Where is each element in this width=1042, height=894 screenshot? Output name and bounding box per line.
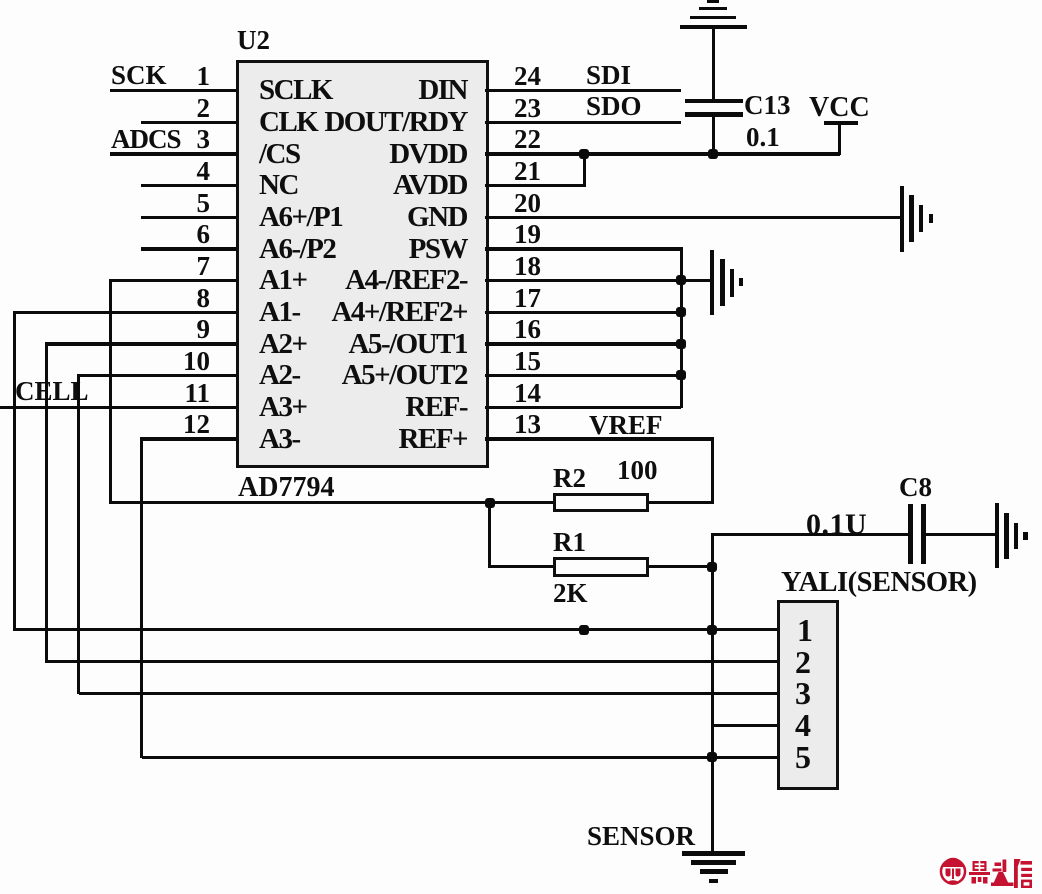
ground A dot <box>929 214 934 224</box>
wire pin18 <box>485 279 681 282</box>
wire pin5 <box>141 216 236 219</box>
pin label A5-/OUT1 pin 16 <box>349 328 468 361</box>
pin label A4-/REF2- pin 18 <box>345 264 467 297</box>
pin label CLK pin 2 <box>259 106 317 139</box>
capacitor C8 left plate <box>908 504 913 564</box>
wire pin21 vertical <box>583 152 586 187</box>
wire sensor pin5 long horizontal <box>142 756 779 759</box>
pin label A6+/P1 pin 5 <box>259 201 342 234</box>
node junction R1 right <box>707 562 717 572</box>
wire C13 bottom to pin22 net <box>712 116 716 154</box>
wire sensor pin1 long horizontal <box>15 628 779 631</box>
wire R1 left horizontal <box>488 565 553 568</box>
pin number 13 <box>514 409 541 440</box>
wire sensor pin3 long horizontal <box>79 692 779 695</box>
connector pin number 5 <box>795 739 811 776</box>
connector pin number 3 <box>795 675 811 712</box>
ground bottom earth bar3 <box>700 869 728 874</box>
pin label PSW pin 19 <box>409 233 467 266</box>
wire pin18 bus to ground B <box>681 279 710 282</box>
wire pin4 <box>141 184 236 187</box>
pin number 14 <box>514 378 541 409</box>
value label C13 <box>744 90 791 121</box>
label C8 <box>899 472 932 503</box>
pin number 17 <box>514 283 541 314</box>
wire pin11 CELL horizontal <box>0 406 236 409</box>
wire ground to C13 top <box>712 27 716 99</box>
pin number 1 <box>197 61 211 92</box>
label U2 <box>237 25 270 56</box>
ground C dot <box>1023 532 1028 541</box>
wire pin22 DVDD <box>485 152 840 155</box>
ground C bar3 <box>1014 523 1018 550</box>
pin number 6 <box>197 219 211 250</box>
wire pin12 vertical <box>140 437 143 758</box>
pin number 8 <box>197 283 211 314</box>
capacitor C8 right plate <box>921 504 926 564</box>
pin number 19 <box>514 219 541 250</box>
pin number 24 <box>514 61 541 92</box>
wire C8 to ground C <box>925 533 995 536</box>
pin number 23 <box>514 93 541 124</box>
power VCC bar <box>824 121 858 125</box>
wire pin13 VREF horizontal <box>485 437 712 440</box>
pin number 3 <box>197 124 211 155</box>
ground A pin20 bar1 tall <box>900 186 904 252</box>
node junction pin17 bus <box>676 307 686 317</box>
pin label A1- pin 8 <box>259 296 300 329</box>
ground bottom earth bar2 <box>691 860 736 865</box>
value label 2K <box>553 578 588 609</box>
connector pin number 2 <box>795 644 811 681</box>
net label SDI <box>586 60 631 91</box>
wire main vertical sensor bus <box>711 533 715 853</box>
pin label DOUT/RDY pin 23 <box>324 106 467 139</box>
capacitor C13 bottom plate <box>685 112 743 117</box>
wire R network left horizontal from pin7 <box>110 501 553 504</box>
node junction pin16 bus <box>676 339 686 349</box>
value label 0.1 <box>746 122 780 153</box>
pin number 11 <box>184 378 210 409</box>
value label 100 <box>617 455 658 486</box>
pin label DVDD pin 22 <box>389 138 467 171</box>
ground B bar1 tall <box>710 250 714 315</box>
node junction sensor pin5 bus <box>707 752 717 762</box>
connector J1 YALI body <box>777 600 839 790</box>
node junction pin22-C13 stem <box>708 149 718 159</box>
pin label NC pin 4 <box>259 169 298 202</box>
wire pin2 <box>141 121 236 124</box>
wire R1 right <box>649 565 712 568</box>
wire pin9 horizontal <box>46 342 236 345</box>
label YALI(SENSOR) <box>781 567 977 599</box>
value label AD7794 <box>238 472 334 504</box>
wire R1 left vertical <box>488 501 491 568</box>
pin label A2+ pin 9 <box>259 328 306 361</box>
ic U2 AD7794 body <box>236 60 489 468</box>
wire pin17 <box>485 311 681 314</box>
pin label A1+ pin 7 <box>259 264 306 297</box>
node junction sensor pin1 bus <box>707 625 717 635</box>
pin label A2- pin 10 <box>259 359 300 392</box>
ground B bar3 <box>730 269 734 297</box>
wire sensor pin4 horizontal <box>712 724 778 727</box>
pin label REF+ pin 13 <box>398 423 467 456</box>
value label 0.1U <box>806 508 867 542</box>
net label ADCS <box>111 124 181 155</box>
wire pin19 vertical bus <box>680 247 683 408</box>
ground top earth bar4 widest <box>680 25 747 29</box>
wire pin3 ADCS <box>110 152 236 155</box>
wire pin6 <box>141 247 236 250</box>
pin number 20 <box>514 188 541 219</box>
wire pin16 <box>485 342 681 345</box>
ground top earth bar3 <box>690 16 736 20</box>
power VCC stem <box>838 121 842 155</box>
wire pin8 vertical <box>13 311 16 631</box>
watermark text dingdaxin glyphs <box>969 859 1032 888</box>
wire pin1 SCK <box>110 89 236 92</box>
wire pin19 horizontal <box>485 247 681 250</box>
connector pin number 4 <box>795 707 811 744</box>
wire pin20 GND <box>485 216 900 219</box>
pin label REF- pin 14 <box>405 391 467 424</box>
label R1 <box>553 527 586 558</box>
pin label A5+/OUT2 pin 15 <box>342 359 467 392</box>
wire 0.1U horizontal to C8 <box>712 533 908 536</box>
net label CELL <box>15 376 89 407</box>
pin number 9 <box>197 314 211 345</box>
pin label A4+/REF2+ pin 17 <box>331 296 467 329</box>
pin label SCLK pin 1 <box>259 74 332 107</box>
resistor R2 body <box>553 493 649 512</box>
pin number 22 <box>514 124 541 155</box>
pin number 10 <box>183 346 210 377</box>
pin label A6-/P2 pin 6 <box>259 233 335 266</box>
pin number 12 <box>183 409 210 440</box>
net label SENSOR <box>587 821 695 852</box>
node junction pin15 bus <box>676 370 686 380</box>
wire pin21 horizontal <box>485 184 584 187</box>
wire pin13 vertical to R2 <box>711 437 714 504</box>
pin number 15 <box>514 346 541 377</box>
node junction R2 left <box>485 498 495 508</box>
wire pin23 SDO <box>485 121 681 124</box>
watermark logo red circle emblem <box>936 855 1042 892</box>
net label SCK <box>111 60 167 91</box>
ground A bar3 <box>919 205 923 232</box>
connector pin number 1 <box>797 612 813 649</box>
ground A bar2 <box>909 195 913 242</box>
wire pin24 SDI <box>485 89 681 92</box>
ground bottom earth bar1 widest <box>682 851 745 856</box>
pin label A3- pin 12 <box>259 423 300 456</box>
pin label AVDD pin 21 <box>393 169 467 202</box>
wire pin15 <box>485 374 681 377</box>
net label VREF <box>589 410 663 441</box>
pin label /CS pin 3 <box>259 138 300 171</box>
pin label GND pin 20 <box>407 201 467 234</box>
pin number 2 <box>197 93 211 124</box>
ground B bar2 <box>720 259 725 306</box>
wire sensor pin2 long horizontal <box>46 660 778 663</box>
wire R2 right <box>649 501 712 504</box>
node junction pin18 bus <box>676 275 686 285</box>
wire pin7 horizontal <box>110 279 236 282</box>
ground C bar2 <box>1004 513 1008 559</box>
net label SDO <box>586 91 642 122</box>
pin number 21 <box>514 156 541 187</box>
pin number 5 <box>197 188 211 219</box>
pin label A3+ pin 11 <box>259 391 306 424</box>
wire pin12 horizontal <box>142 437 237 440</box>
resistor R1 body <box>553 557 649 577</box>
pin number 16 <box>514 314 541 345</box>
capacitor C13 top plate <box>685 99 743 104</box>
wire pin7 vertical <box>109 279 112 504</box>
pin number 4 <box>197 156 211 187</box>
pin number 7 <box>197 251 211 282</box>
pin number 18 <box>514 251 541 282</box>
ground C bar1 tall <box>995 503 999 568</box>
ground B dot <box>739 278 743 286</box>
label R2 <box>553 463 586 494</box>
ground top earth bar1 smallest <box>707 0 719 3</box>
power VCC label <box>809 92 870 124</box>
node junction sensor pin1 x584 <box>579 625 589 635</box>
pin label DIN pin 24 <box>418 74 467 107</box>
ground top earth bar2 <box>699 7 727 11</box>
wire pin10 horizontal <box>79 374 237 377</box>
wire pin10 vertical <box>77 374 80 695</box>
wire pin8 horizontal <box>15 311 237 314</box>
ground bottom earth bar4 smallest <box>709 879 718 883</box>
wire pin14 <box>485 406 681 409</box>
wire pin9 vertical <box>45 342 48 663</box>
node junction pin22-pin21 <box>579 149 589 159</box>
